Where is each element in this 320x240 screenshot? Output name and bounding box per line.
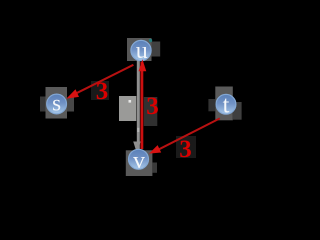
wire: red edge t to v: [157, 118, 220, 150]
node u label background box: [127, 38, 160, 61]
node s: [47, 91, 67, 116]
teal dot near node u: [149, 39, 152, 42]
node u: [131, 38, 151, 64]
label box behind "3" of edge u-s: [91, 81, 109, 100]
svg-text:v: v: [133, 148, 145, 174]
node t: [216, 93, 236, 119]
arrowhead into s: [66, 89, 79, 98]
light dot on gray edge: [137, 128, 139, 132]
svg-text:s: s: [52, 91, 61, 116]
svg-text:3: 3: [146, 93, 159, 120]
node v label background box: [126, 150, 157, 176]
wire: red edge v to u (vertical): [141, 62, 144, 149]
svg-text:u: u: [136, 38, 148, 64]
svg-text:3: 3: [96, 78, 109, 105]
node v: [129, 148, 149, 174]
arrowhead into u: [139, 59, 147, 71]
node s label background box: [40, 87, 74, 119]
wire: red edge u to s: [75, 65, 134, 94]
gray arrowhead into v: [133, 142, 140, 154]
label box behind "3" of edge t-v: [176, 136, 196, 158]
edge u-v weight label background (gray square): [119, 96, 136, 121]
svg-text:3: 3: [179, 136, 192, 163]
svg-text:t: t: [223, 93, 230, 119]
gray edge u-v (parallel undirected edge): [137, 57, 140, 152]
arrowhead into v: [149, 145, 161, 154]
node t label background box: [208, 87, 241, 121]
label box behind "3" of edge v-u: [144, 97, 158, 126]
